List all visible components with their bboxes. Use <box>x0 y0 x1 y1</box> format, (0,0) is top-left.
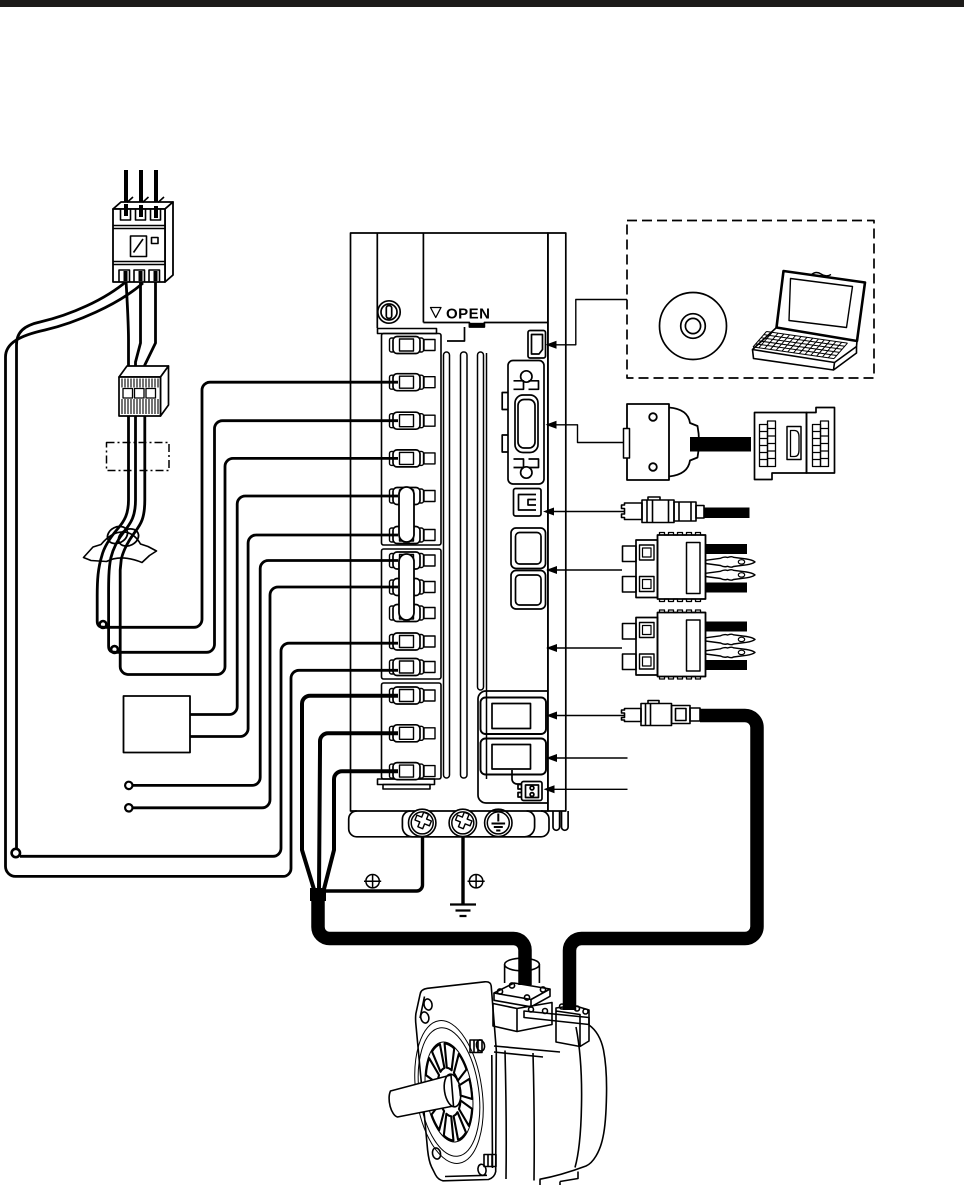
svg-text:OPEN: OPEN <box>446 306 491 323</box>
